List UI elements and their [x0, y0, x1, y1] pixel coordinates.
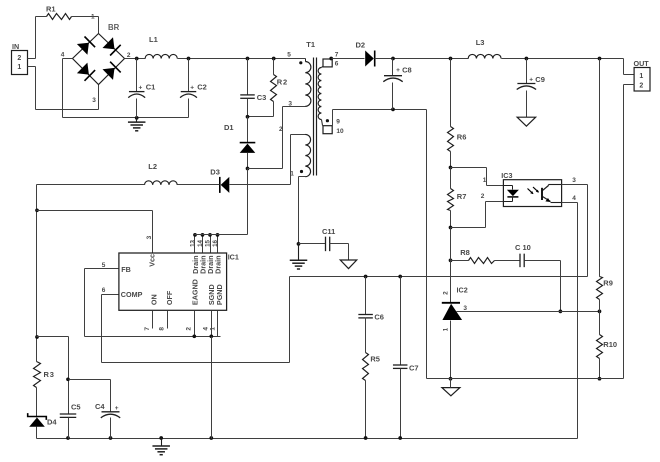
svg-text:PGND: PGND: [215, 284, 224, 305]
diode D3: [210, 167, 229, 193]
wire T1 pin3: [248, 100, 306, 168]
wire IN pin1 down: [35, 67, 37, 110]
node D1 anode junction: [246, 167, 250, 171]
svg-text:4: 4: [572, 195, 576, 202]
wire IN pin2 stub: [28, 58, 36, 60]
wire IC3 pin4: [562, 195, 578, 439]
wire IN pin1 stub: [28, 66, 36, 68]
connector OUT J2: [634, 59, 651, 91]
wire T1 pin1 down: [299, 177, 306, 244]
IC1 pin2 stub: [186, 311, 197, 339]
wire R6 to junction: [450, 152, 452, 168]
node T1 pin7 rail: [329, 57, 333, 61]
node C7 top: [398, 275, 402, 279]
svg-text:IN: IN: [12, 42, 19, 51]
wire IC2 anode down: [450, 321, 452, 379]
capacitor C2: [180, 59, 207, 118]
node C3 top: [246, 57, 250, 61]
IC1 pin3 label: [146, 235, 153, 239]
wire to IC3 pin2: [451, 193, 504, 228]
svg-text:IC2: IC2: [457, 286, 468, 295]
bridge pin labels: [61, 13, 131, 104]
T1 aux winding: [305, 134, 310, 176]
svg-text:3: 3: [463, 305, 467, 312]
wire bridge pin4 stub: [63, 58, 73, 60]
wire bias branch: [37, 337, 69, 415]
svg-text:D3: D3: [210, 167, 220, 176]
node C4 branch: [66, 377, 70, 381]
wire R7 to junction: [450, 211, 452, 228]
svg-text:EAGND: EAGND: [191, 279, 200, 305]
svg-text:5: 5: [287, 52, 291, 59]
ground GND3: [152, 439, 170, 455]
IC1 FB text: [121, 265, 131, 274]
wire bottom ground rail: [37, 438, 578, 440]
capacitor C10: [515, 243, 531, 267]
svg-text:C8: C8: [402, 65, 412, 74]
wire AC bottom to bridge pin3: [36, 85, 99, 110]
wire C11 right lead: [330, 244, 349, 261]
IC1 Drain texts: [191, 255, 223, 273]
wire SGND to ground rail: [211, 337, 213, 439]
node C6 top: [364, 275, 368, 279]
node R6 top: [449, 57, 453, 61]
svg-text:+: +: [396, 67, 400, 74]
inductor L2: [145, 162, 178, 185]
IC1 OFF text: [165, 290, 174, 305]
bridge rectifier BR outline: [73, 23, 125, 85]
ground triangle IC2: [442, 388, 460, 396]
svg-text:C7: C7: [409, 363, 419, 372]
svg-text:15: 15: [204, 239, 211, 246]
T1 core: [314, 58, 317, 176]
svg-text:14: 14: [197, 239, 204, 246]
svg-text:+: +: [139, 84, 143, 91]
svg-text:BR: BR: [108, 23, 120, 32]
capacitor C9: [517, 59, 545, 118]
svg-text:+: +: [190, 84, 194, 91]
svg-text:L1: L1: [149, 35, 158, 44]
svg-text:C6: C6: [374, 313, 384, 322]
IC1 PGND text: [215, 284, 224, 305]
svg-text:C9: C9: [535, 75, 545, 84]
T1 primary winding: [305, 59, 311, 107]
ground triangle C11: [340, 260, 357, 269]
svg-text:7: 7: [335, 51, 339, 58]
shunt regulator IC2: [442, 286, 468, 332]
wire FB gnd line: [85, 336, 221, 338]
svg-text:R8: R8: [460, 248, 470, 257]
svg-text:6: 6: [102, 287, 106, 294]
svg-text:R6: R6: [457, 132, 467, 141]
wire R9 to junction: [599, 300, 601, 312]
svg-text:9: 9: [336, 119, 340, 126]
wire secondary ground rail: [427, 378, 624, 380]
svg-text:2: 2: [186, 327, 193, 331]
wire secondary return: [333, 110, 427, 126]
wire secondary return down: [426, 110, 428, 379]
node C11 junction: [297, 242, 301, 246]
node R5 bottom: [364, 436, 368, 440]
wire IC2 gnd stub: [450, 379, 452, 388]
svg-text:2: 2: [443, 291, 450, 295]
wire OUT pin2 return: [624, 85, 635, 379]
wire COMP riser: [102, 277, 290, 363]
svg-text:1: 1: [442, 327, 449, 331]
svg-text:C 10: C 10: [515, 243, 531, 252]
wire R8 lead: [451, 260, 469, 262]
resistor R1: [46, 4, 72, 19]
wire D3 cathode to L2: [178, 184, 220, 186]
resistor R2: [248, 59, 288, 117]
node C3/R2 junction: [246, 115, 250, 119]
IC3 LED: [504, 186, 519, 202]
svg-text:L2: L2: [148, 162, 157, 171]
svg-text:D2: D2: [356, 41, 366, 50]
capacitor C4: [95, 402, 120, 439]
T1 pins 9/10 box: [322, 119, 344, 135]
IC1 pin4 stub: [203, 311, 214, 339]
node SGND bottom: [209, 436, 213, 440]
T1 secondary phasing dot: [326, 119, 329, 122]
svg-text:13: 13: [189, 239, 196, 246]
svg-text:ON: ON: [149, 294, 158, 305]
svg-text:1: 1: [209, 327, 216, 331]
IC1 drain pin numbers: [189, 239, 219, 246]
svg-text:8: 8: [159, 327, 166, 331]
svg-text:1: 1: [483, 177, 487, 184]
node C8 top: [391, 57, 395, 61]
svg-text:1: 1: [290, 171, 294, 178]
wire T1 pin2: [279, 126, 306, 184]
node R7 bottom junction: [449, 226, 453, 230]
svg-text:6: 6: [335, 60, 339, 67]
wire OUT pin1: [624, 59, 635, 75]
wire ground bus: [63, 117, 189, 119]
IC1 EAGND text: [191, 279, 200, 305]
node IC2 ground: [449, 377, 453, 381]
svg-text:Vcc: Vcc: [147, 254, 156, 267]
bridge diode lower-right: [103, 62, 121, 80]
svg-text:3: 3: [288, 100, 292, 107]
capacitor C1: [128, 59, 155, 118]
resistor R10: [597, 312, 618, 359]
wire drain bus: [195, 169, 248, 235]
svg-text:R1: R1: [46, 4, 56, 13]
svg-text:C11: C11: [322, 227, 335, 236]
IC3 light arrows: [528, 187, 539, 194]
svg-text:COMP: COMP: [121, 290, 143, 299]
svg-text:7: 7: [144, 327, 151, 331]
resistor R5: [363, 353, 380, 381]
wire COMP node line: [290, 276, 588, 278]
svg-text:R10: R10: [603, 340, 617, 349]
svg-text:T1: T1: [306, 40, 315, 49]
IC1 ON text: [149, 294, 158, 305]
resistor R3: [34, 362, 55, 388]
capacitor C5: [60, 403, 81, 439]
ground GND1: [128, 118, 146, 131]
wire R1 lead-in: [36, 16, 47, 18]
svg-text:3: 3: [146, 235, 153, 239]
svg-text:C5: C5: [71, 403, 81, 412]
svg-text:FB: FB: [121, 265, 131, 274]
wire DC- down: [62, 59, 64, 118]
node C2 top: [187, 57, 191, 61]
resistor R6: [448, 127, 467, 152]
svg-text:5: 5: [102, 262, 106, 269]
svg-text:L3: L3: [476, 38, 485, 47]
node C7 bottom: [398, 436, 402, 440]
wire Vcc line: [37, 211, 153, 253]
IC1 pin1 stub: [209, 311, 217, 337]
wire C10 to ref node: [525, 261, 561, 312]
diode D2: [356, 41, 375, 67]
wire IN pin2 up to R1: [35, 17, 37, 59]
wire L1 to C3/R2/T1: [178, 58, 306, 60]
connector IN J1: [12, 42, 28, 75]
wire Vcc rail down: [36, 185, 38, 362]
capacitor C8: [383, 59, 411, 110]
node C9 top: [525, 57, 529, 61]
wire D2 cathode rail: [375, 58, 469, 60]
wire rail to R6: [450, 59, 452, 127]
IC1 drain stubs: [193, 233, 219, 252]
IC1 pin6 label: [102, 287, 106, 294]
IC1 pin7 stub: [144, 311, 153, 331]
wire C4 branch: [69, 380, 111, 412]
resistor R7: [448, 168, 467, 211]
svg-text:IC1: IC1: [228, 252, 239, 261]
wire bridge pin2 to C1: [125, 58, 146, 60]
svg-text:OFF: OFF: [165, 290, 174, 305]
resistor R9: [597, 277, 613, 300]
inductor L3: [468, 38, 501, 59]
svg-text:1: 1: [639, 73, 643, 80]
node Vcc tap: [35, 208, 39, 212]
svg-text:C4: C4: [95, 402, 105, 411]
node C1 ground junction: [135, 116, 139, 120]
wire D3 anode: [230, 184, 291, 186]
wire C11 left lead: [299, 243, 326, 245]
IC1 COMP text: [121, 290, 143, 299]
IC1 pin5 wire: [85, 262, 119, 269]
svg-text:1: 1: [17, 64, 21, 71]
svg-text:2: 2: [481, 193, 485, 200]
T1 secondary winding: [318, 68, 321, 120]
wire to IC3 pin1: [451, 168, 504, 186]
IC1 box: [119, 252, 239, 310]
ground triangle C9: [517, 117, 536, 126]
svg-text:+: +: [115, 405, 119, 412]
T1 primary phasing dot: [299, 61, 302, 64]
svg-text:1: 1: [91, 13, 95, 20]
svg-text:3: 3: [92, 97, 96, 104]
node R2 top: [272, 57, 276, 61]
wire T1 pin7 to D2: [332, 58, 365, 60]
svg-text:16: 16: [212, 239, 219, 246]
wire R8 to C10: [495, 260, 521, 262]
node R6/R7 junction: [449, 166, 453, 170]
node C8 bottom: [391, 108, 395, 112]
node R3 top junction: [35, 335, 39, 339]
node C10 bottom: [559, 310, 563, 314]
IC3 phototransistor: [542, 185, 562, 203]
wire L2 to left rail: [37, 184, 145, 186]
node R10 bottom: [598, 377, 602, 381]
wire IC2 ref: [457, 311, 600, 313]
capacitor C3: [240, 59, 266, 117]
node C1 top: [135, 57, 139, 61]
svg-text:R2: R2: [277, 78, 288, 87]
bridge diode upper-right: [103, 37, 121, 55]
IC1 SGND text: [207, 284, 216, 305]
svg-text:IC3: IC3: [501, 171, 512, 180]
svg-text:2: 2: [17, 55, 21, 62]
node C5 bottom: [66, 436, 70, 440]
ground GND2: [290, 244, 308, 270]
svg-text:10: 10: [336, 128, 344, 135]
optocoupler IC3 box: [501, 171, 561, 206]
wire L3 to OUT corner: [502, 58, 624, 60]
svg-text:D1: D1: [224, 123, 234, 132]
wire COMP into IC1: [102, 295, 119, 363]
wire R10 to gnd rail: [599, 359, 601, 379]
T1 pins 7/6 box: [322, 51, 339, 67]
capacitor C11: [322, 227, 335, 251]
T1 pin5 label: [287, 52, 291, 59]
node GND3 junction: [159, 436, 163, 440]
capacitor C7: [393, 277, 419, 439]
svg-text:OUT: OUT: [634, 59, 650, 68]
resistor R8: [460, 248, 494, 264]
svg-text:R7: R7: [457, 192, 467, 201]
svg-text:C3: C3: [257, 93, 267, 102]
svg-text:4: 4: [61, 52, 65, 59]
svg-text:C1: C1: [146, 83, 156, 92]
svg-text:Drain: Drain: [214, 255, 223, 273]
T1 pin1 label: [290, 171, 294, 178]
diode D1: [224, 117, 255, 169]
zener diode D4: [28, 388, 58, 439]
wire FB down: [84, 269, 86, 337]
svg-text:3: 3: [572, 177, 576, 184]
inductor L1: [145, 35, 177, 59]
wire rail to R9: [599, 59, 601, 277]
IC1 Vcc text: [147, 254, 156, 267]
IC1 pin8 stub: [159, 311, 168, 331]
svg-text:+: +: [529, 77, 533, 84]
bridge diode lower-left: [77, 63, 95, 81]
svg-text:2: 2: [279, 126, 283, 133]
wire R5 to gnd rail: [365, 381, 367, 439]
node R9 feed: [598, 57, 602, 61]
svg-text:D4: D4: [47, 418, 57, 427]
svg-text:R3: R3: [44, 370, 55, 379]
transformer T1 label: [306, 40, 315, 49]
node C4 bottom: [109, 436, 113, 440]
bridge diode upper-left: [77, 37, 95, 55]
wire R7 junction down to IC2: [450, 228, 452, 303]
T1 aux phasing dot: [300, 170, 303, 173]
capacitor C6: [358, 277, 384, 353]
node R8 tap: [449, 259, 453, 263]
svg-text:R9: R9: [603, 278, 613, 287]
node R9/R10 junction: [598, 310, 602, 314]
wire IC3 pin3: [562, 177, 588, 277]
svg-text:2: 2: [639, 82, 643, 89]
svg-text:R5: R5: [370, 354, 380, 363]
svg-text:C2: C2: [197, 83, 207, 92]
wire R1 to bridge top: [72, 17, 99, 34]
